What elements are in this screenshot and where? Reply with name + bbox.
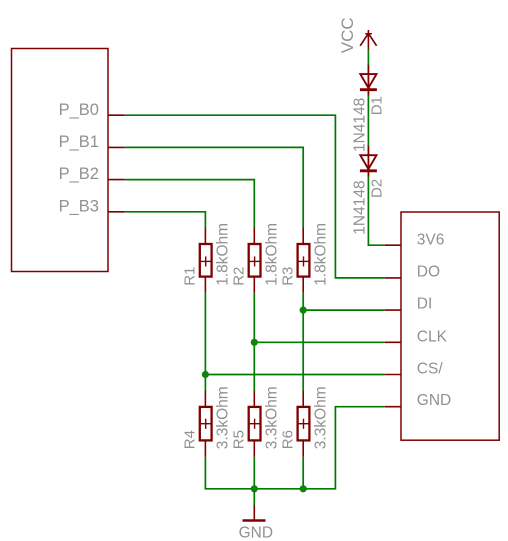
wire net R1 bottom to CS/ [205, 293, 384, 391]
svg-text:R6: R6 [279, 430, 296, 449]
wire VCC to 3V6 pin [368, 49, 384, 245]
junction at R3/DI [300, 307, 307, 314]
resistor R2 [230, 223, 280, 293]
pin DO [385, 263, 440, 280]
svg-text:3.3kOhm: 3.3kOhm [312, 386, 329, 449]
svg-text:1.8kOhm: 1.8kOhm [312, 223, 329, 286]
pin GND [385, 392, 452, 409]
pin CLK [385, 328, 448, 345]
svg-text:R5: R5 [230, 430, 247, 449]
wire net R2 bottom to CLK [254, 293, 384, 391]
svg-text:1.8kOhm: 1.8kOhm [264, 223, 281, 286]
svg-text:3V6: 3V6 [417, 231, 445, 248]
junction at R6 bottom [300, 485, 307, 492]
resistor R6 [279, 386, 329, 456]
svg-text:1.8kOhm: 1.8kOhm [215, 223, 232, 286]
svg-text:VCC: VCC [338, 17, 357, 53]
wire net P_B3 to R1 top [125, 212, 206, 228]
diode D1 [351, 65, 385, 152]
ground GND symbol [239, 505, 273, 541]
pin DI [385, 296, 433, 313]
pin P_B0 [59, 101, 125, 119]
wire net R3 bottom to DI [303, 293, 385, 391]
IC1 left component box [12, 49, 109, 272]
svg-text:P_B1: P_B1 [59, 133, 99, 151]
junction at R1/CS [202, 371, 209, 378]
svg-text:D2: D2 [369, 179, 386, 198]
svg-text:1N4148: 1N4148 [351, 180, 368, 234]
wire net P_B1 to R3 top [125, 147, 303, 228]
resistor R1 [182, 223, 232, 293]
resistor R3 [279, 223, 329, 293]
wire net P_B0 to DO [125, 115, 385, 278]
svg-text:P_B2: P_B2 [59, 165, 99, 183]
pin 3V6 [385, 231, 445, 248]
junction at R5 bottom [251, 485, 258, 492]
IC2 right component box [401, 212, 499, 440]
svg-text:CS/: CS/ [417, 360, 444, 377]
junction at R2/CLK [251, 339, 258, 346]
svg-text:DI: DI [417, 296, 433, 313]
svg-text:D1: D1 [369, 96, 386, 115]
diode D2 [351, 146, 385, 235]
pin CS/ [385, 360, 444, 377]
svg-text:P_B0: P_B0 [59, 101, 99, 119]
wire to GND symbol [253, 489, 255, 505]
supply VCC symbol [338, 17, 377, 53]
pin P_B2 [59, 165, 125, 183]
svg-text:GND: GND [239, 525, 273, 541]
svg-text:P_B3: P_B3 [59, 197, 99, 215]
wire net P_B2 to R2 top [125, 180, 255, 228]
resistor R5 [230, 386, 280, 456]
svg-text:GND: GND [417, 392, 451, 409]
svg-text:3.3kOhm: 3.3kOhm [215, 386, 232, 449]
svg-text:R3: R3 [279, 267, 296, 286]
svg-text:R2: R2 [230, 267, 247, 286]
pin P_B1 [59, 133, 125, 151]
svg-text:1N4148: 1N4148 [351, 98, 368, 152]
svg-text:CLK: CLK [417, 328, 448, 345]
svg-text:R1: R1 [182, 267, 199, 286]
wire GND rail [205, 407, 384, 489]
resistor R4 [182, 386, 232, 456]
svg-text:R4: R4 [182, 430, 199, 449]
svg-text:DO: DO [417, 263, 440, 280]
pin P_B3 [59, 197, 125, 215]
svg-text:3.3kOhm: 3.3kOhm [264, 386, 281, 449]
